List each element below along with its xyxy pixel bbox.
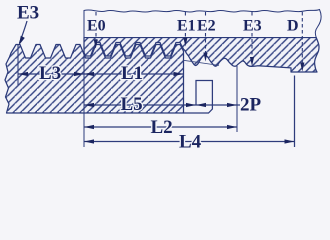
svg-text:E2: E2 (197, 17, 216, 34)
svg-text:E3: E3 (243, 17, 262, 34)
svg-text:L1: L1 (121, 63, 143, 84)
svg-text:E1: E1 (177, 17, 196, 34)
coupling hatched section (top piece with internal threads) (84, 38, 319, 73)
gauge line E1 (dashed, x=185.4) (184, 12, 186, 17)
dimension 2P (y=105, from 196 to 237) (196, 104, 240, 106)
dimension line L4 (y=141.5, from 84 to 294.5) (84, 141, 295, 143)
svg-text:2P: 2P (240, 94, 262, 115)
svg-text:L3: L3 (39, 63, 61, 84)
coupling upper band (unsectioned wall, wavy break at top and right) (84, 10, 321, 38)
gauge line E2 (dashed, x=205.5) (205, 12, 207, 17)
svg-text:L2: L2 (151, 117, 173, 138)
extension line coupling face x=84 (83, 11, 85, 148)
svg-text:E3: E3 (17, 3, 39, 24)
svg-text:L4: L4 (179, 131, 202, 152)
gauge line D (dashed, x=302.3) (301, 12, 303, 66)
pipe cone pitch line through thread runout (184, 60, 220, 65)
dimension line L5 (y=105, from 84 to 196) (84, 104, 196, 106)
dimension line L3 (y=74, from 18 to 84) (18, 73, 84, 75)
svg-text:L5: L5 (121, 94, 143, 115)
gauge line E0 (dashed, x=96) (95, 12, 97, 17)
gauge line E3 right (dashed, x=252) (251, 12, 253, 17)
pin / pipe hatched section with external threads (5, 45, 184, 114)
dimension line L2 (y=127, from 84 to 237) (84, 126, 237, 128)
extension line vanish point x=237 (236, 66, 238, 132)
extension line pipe OD plane x=294.5 (294, 76, 296, 148)
pipe body edge behind section (bottom-right corner and end outline) (184, 81, 213, 114)
svg-text:D: D (287, 17, 299, 34)
extension line at first thread crest x=18 (17, 44, 19, 85)
svg-text:E0: E0 (87, 17, 106, 34)
dimension line L1 (y=74, from 84 to 183.5) (84, 73, 184, 75)
